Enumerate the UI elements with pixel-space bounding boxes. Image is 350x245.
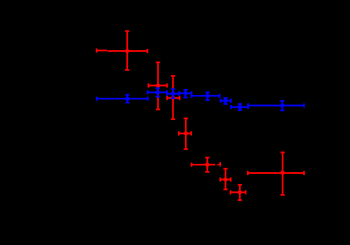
blue data point B2: marker + x/y error bars <box>148 88 167 97</box>
red data point R2: marker + x/y error bars <box>148 62 167 109</box>
blue data point B4: marker + x/y error bars <box>179 90 192 98</box>
blue data point B6: marker + x/y error bars <box>221 98 231 104</box>
blue data point B7: marker + x/y error bars <box>231 104 248 110</box>
blue data point B1: marker + x/y error bars <box>97 95 148 103</box>
red data point R1: marker + x/y error bars <box>97 31 148 70</box>
red data point R5: marker + x/y error bars <box>192 158 221 172</box>
blue data point B8: marker + x/y error bars <box>248 101 304 110</box>
red data point R8: marker + x/y error bars <box>248 152 304 195</box>
red data point R3: marker + x/y error bars <box>167 76 180 119</box>
blue data point B3: marker + x/y error bars <box>167 89 179 98</box>
red data point R4: marker + x/y error bars <box>179 118 191 149</box>
red data point R7: marker + x/y error bars <box>231 185 246 200</box>
red data point R6: marker + x/y error bars <box>220 169 230 190</box>
blue data point B5: marker + x/y error bars <box>192 92 220 100</box>
